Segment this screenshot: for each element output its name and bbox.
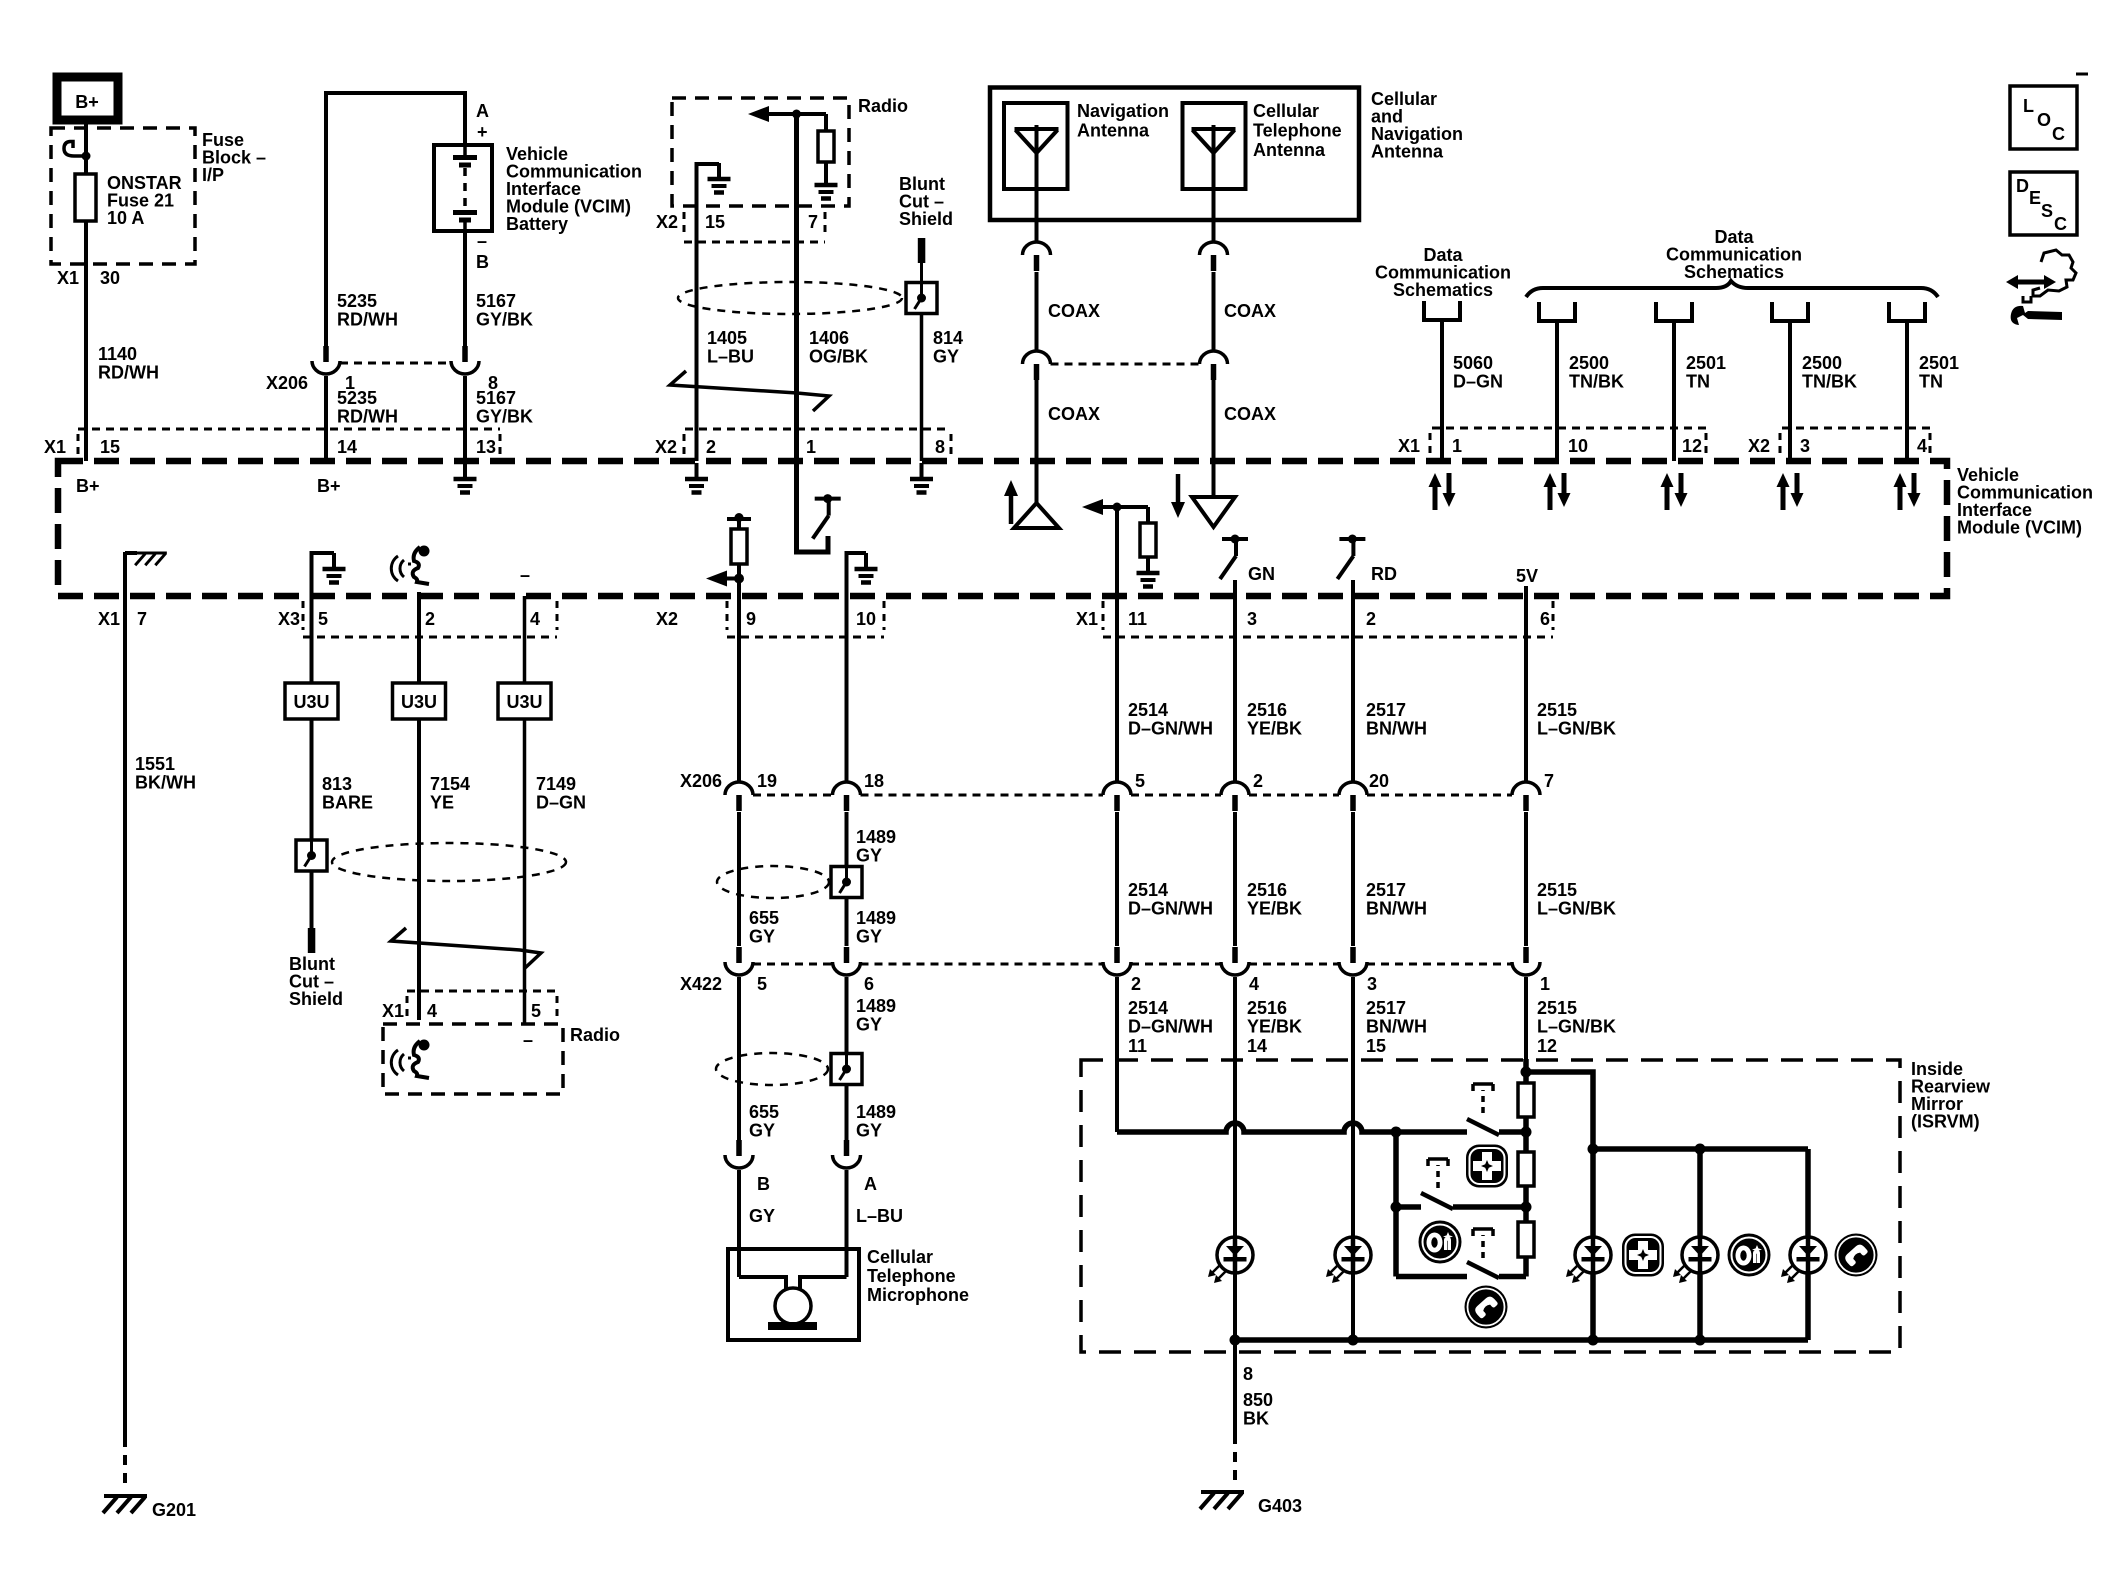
icon phone switch network [1465,1286,1508,1329]
wire 1489 GY segment 1 [845,596,849,782]
icon OnStar switch network [1419,1221,1462,1264]
svg-text:B+: B+ [76,476,100,496]
svg-text:X2: X2 [656,212,678,232]
svg-text:C: C [2052,124,2065,144]
svg-text:8: 8 [1243,1364,1253,1384]
ISRVM ground bus [1235,1337,1808,1343]
shield ellipse 655 segment 2 [717,866,829,898]
ISRVM resistor R1 [1518,1083,1534,1117]
svg-text:655: 655 [749,1102,779,1122]
svg-text:COAX: COAX [1224,404,1276,424]
junction dot radio output [792,110,801,119]
junction dot resistor chain mid1 [1521,1127,1532,1138]
microphone internal structure [739,1277,786,1289]
svg-text:1406: 1406 [809,328,849,348]
blunt cut shield tick [918,238,926,263]
connector U3U wire 7149 [498,683,551,719]
svg-text:10 A: 10 A [107,208,144,228]
radio internal ground wire 1405 side [697,164,720,206]
wire 2516 YE/BK segment 1 [1233,580,1237,782]
svg-text:7: 7 [808,212,818,232]
svg-text:Antenna: Antenna [1077,121,1150,141]
inside rearview mirror dashed box ISRVM [1081,1060,1900,1352]
svg-text:X2: X2 [656,609,678,629]
in-line connector cell coax 1 [1200,242,1228,271]
ISRVM LED feed bus [1593,1146,1808,1152]
svg-text:X1: X1 [44,437,66,457]
voice mic symbol VCIM X3-2 [417,592,421,596]
svg-text:9: 9 [746,609,756,629]
svg-text:C: C [2054,214,2067,234]
in-line connector X206 pin 7 [1512,782,1540,811]
shield splice box 813 [296,840,327,871]
junction dot ground bus [1695,1335,1706,1346]
VCIM battery box [434,145,492,231]
svg-text:GY/BK: GY/BK [476,310,533,330]
svg-text:Radio: Radio [570,1025,620,1045]
connector dotted row X1 top left [78,428,500,431]
svg-text:1: 1 [806,437,816,457]
svg-text:7: 7 [1544,771,1554,791]
up arrow nav antenna input [1004,480,1018,524]
svg-text:COAX: COAX [1224,301,1276,321]
twisted pair marker radio mic wires [391,928,541,968]
junction dot fuse feed [82,152,91,161]
dashed tail wire 850 [1233,1434,1237,1486]
legend box LOC [2010,86,2077,149]
svg-text:RD/WH: RD/WH [98,363,159,383]
junction dot ground bus [1588,1335,1599,1346]
svg-text:Cellular: Cellular [1253,101,1319,121]
up-down arrows 2500 #1 [1544,473,1571,510]
svg-text:L–GN/BK: L–GN/BK [1537,1017,1616,1037]
in-line connector X422 pin 5 [725,947,753,975]
svg-text:655: 655 [749,908,779,928]
svg-text:2517: 2517 [1366,700,1406,720]
icon phone LED row [1835,1234,1878,1277]
wire 1489 GY segment 3 [845,977,849,1140]
junction dot LED rail [1588,1144,1599,1155]
wire B+ to fuse [84,120,88,155]
svg-text:Shield: Shield [289,989,343,1009]
junction dot 2515 top branch [1521,1067,1532,1078]
wire mic A [845,1170,849,1277]
svg-text:X3: X3 [278,609,300,629]
wire 813 drain to blunt cut [310,871,314,928]
icon emergency cross LED row [1622,1234,1664,1277]
svg-text:5: 5 [531,1001,541,1021]
ISRVM net row 3 horizontal [1396,1274,1467,1280]
junction dot left rail mid [1391,1202,1402,1213]
in-line connector X422 pin 6 [833,947,861,975]
wire 2500 TN/BK [1788,321,1792,461]
radio internal resistor [824,114,828,131]
svg-text:2515: 2515 [1537,700,1577,720]
svg-text:2516: 2516 [1247,880,1287,900]
wire 813 BARE lower [310,719,314,840]
svg-text:3: 3 [1247,609,1257,629]
svg-text:+: + [477,122,488,142]
wire 2514 segment 3 [1115,977,1119,1132]
shield ellipse X3 harness [332,843,566,881]
nav coax wire COAX 2 [1035,380,1039,461]
svg-text:D: D [2016,176,2029,196]
svg-text:B: B [476,252,489,272]
ground G201 [103,1496,147,1513]
voice mic symbol radio [391,1040,429,1079]
wire 814 shield drain upper [920,263,923,283]
nav coax wire COAX [1035,272,1039,351]
svg-text:20: 20 [1369,771,1389,791]
in-line connector X422 pin 2 [1103,947,1131,975]
svg-text:1405: 1405 [707,328,747,348]
svg-text:5: 5 [318,609,328,629]
legend box DESC [2010,172,2077,235]
wire 1406 inside radio [794,114,799,206]
horn switch inside VCIM [797,461,829,552]
ISRVM resistor R3 [1518,1222,1534,1257]
connector U3U wire 813 [285,683,338,719]
cellular telephone antenna inner box [1183,103,1246,189]
cellular telephone microphone box [728,1249,859,1340]
svg-text:–: – [520,565,530,585]
svg-text:TN: TN [1919,372,1943,392]
wire 5235 feed loop [326,93,465,360]
svg-text:TN: TN [1686,372,1710,392]
in-line connector X422 pin 4 [1221,947,1249,975]
svg-text:X1: X1 [1398,436,1420,456]
svg-text:Schematics: Schematics [1684,262,1784,282]
svg-text:YE: YE [430,793,454,813]
wire 2515 segment 3 [1524,977,1528,1083]
svg-text:BN/WH: BN/WH [1366,1017,1427,1037]
svg-text:11: 11 [1128,1036,1147,1056]
ISRVM switch 1 actuator [1481,1090,1485,1113]
ground VCIM X3-5 internal [312,553,335,596]
ground VCIM pin 13 [454,463,477,493]
dotted tie X422 row [753,963,832,966]
svg-text:2500: 2500 [1569,353,1609,373]
blunt cut tick 813 [308,928,316,953]
svg-text:G403: G403 [1258,1496,1302,1516]
svg-text:3: 3 [1800,436,1810,456]
svg-text:4: 4 [530,609,540,629]
ISRVM switch 3 blade [1467,1262,1499,1278]
svg-text:X206: X206 [680,771,722,791]
svg-text:11: 11 [1128,609,1147,629]
cell coax wire COAX 2 [1212,380,1216,461]
svg-text:12: 12 [1682,436,1702,456]
svg-text:TN/BK: TN/BK [1569,372,1624,392]
LED telltale 2517 [1351,1237,1356,1273]
wire 2515 into ISRVM [1523,1059,1529,1083]
wire 814 GY [920,314,924,462]
svg-text:X1: X1 [98,609,120,629]
svg-text:15: 15 [1366,1036,1386,1056]
up-down arrows X1-1 [1429,473,1456,510]
svg-text:5060: 5060 [1453,353,1493,373]
down arrow cell antenna output [1171,474,1185,518]
svg-text:YE/BK: YE/BK [1247,1017,1302,1037]
svg-text:GN: GN [1248,564,1275,584]
wire 1140 RD/WH [84,264,88,461]
svg-text:RD/WH: RD/WH [337,310,398,330]
svg-text:5167: 5167 [476,388,516,408]
svg-text:14: 14 [1247,1036,1267,1056]
shield ellipse 655 segment 3 [716,1053,828,1085]
svg-text:D–GN: D–GN [1453,372,1503,392]
LED RD telltale symbol [1337,535,1365,580]
wire 1551 branch chassis node [125,551,137,555]
svg-text:L–BU: L–BU [707,347,754,367]
svg-text:X2: X2 [1748,436,1770,456]
svg-text:OG/BK: OG/BK [809,347,868,367]
fuse ONSTAR Fuse 21 10 A [84,156,88,174]
LED GN telltale symbol [1220,535,1248,580]
svg-text:RD/WH: RD/WH [337,407,398,427]
wire 5060 D-GN [1440,320,1444,461]
svg-text:–: – [477,231,487,251]
VCIM internal arrow node X1-11 [1100,505,1148,509]
wire 7154 YE upper [417,596,421,683]
svg-text:X206: X206 [266,373,308,393]
dashed tail wire 1551 [123,1437,127,1491]
wire 2515 segment 2 [1524,812,1528,946]
svg-text:Telephone: Telephone [1253,121,1342,141]
svg-text:1: 1 [1452,436,1462,456]
ISRVM LED branch 2 wire [1697,1149,1703,1237]
svg-text:Cellular: Cellular [867,1247,933,1267]
tiny page mark [2076,73,2088,76]
svg-text:YE/BK: YE/BK [1247,719,1302,739]
svg-text:B+: B+ [75,92,99,112]
svg-text:1: 1 [1540,974,1550,994]
wire 2517 BN/WH segment 1 [1351,580,1355,782]
wire 2516 segment 3 [1233,977,1237,1237]
wire 2516 segment 2 [1233,812,1237,946]
ISRVM switch 3 actuator [1481,1235,1485,1258]
wire 1551 BK/WH [123,552,127,1437]
svg-text:2515: 2515 [1537,880,1577,900]
svg-text:14: 14 [337,437,357,457]
fuse block dashed box Fuse Block - I/P [51,128,195,264]
shield splice box radio [906,283,937,314]
junction dot ground bus [1348,1335,1359,1346]
svg-text:7154: 7154 [430,774,470,794]
up-down arrows 2501 #4 [1894,473,1921,510]
radio dashed box [672,98,849,206]
svg-text:COAX: COAX [1048,301,1100,321]
in-line connector X422 pin 3 [1339,947,1367,975]
svg-text:4: 4 [1917,436,1927,456]
svg-text:15: 15 [705,212,725,232]
LED telltale rail3 [1806,1237,1811,1273]
svg-text:GY: GY [856,1121,882,1141]
in-line connector X206 pin 2 [1221,782,1249,811]
ground G403 [1200,1492,1244,1509]
radio internal arrow line [766,112,826,116]
navigation antenna symbol [1015,125,1059,220]
ISRVM left rail [1393,1132,1399,1277]
svg-text:RD: RD [1371,564,1397,584]
svg-text:Microphone: Microphone [867,1285,969,1305]
ISRVM switch 2 actuator [1436,1165,1440,1188]
svg-text:7: 7 [137,609,147,629]
junction dot resistor chain mid2 [1521,1202,1532,1213]
svg-text:S: S [2041,201,2053,221]
ground radio resistor [815,169,838,199]
wire 5167 GY/BK lower [463,376,467,461]
svg-text:1489: 1489 [856,908,896,928]
wire VCIM pin X1-11 internal [1115,507,1119,596]
fuse clip hook [64,142,86,157]
dotted tie X206 bottom row [753,794,832,797]
svg-text:2: 2 [1131,974,1141,994]
svg-text:–: – [523,1030,533,1050]
ISRVM net 2514 horizontal with hops [1117,1123,1467,1132]
junction dot LED feed mid [1695,1144,1706,1155]
svg-text:2514: 2514 [1128,880,1168,900]
ISRVM switch 2 blade [1421,1193,1453,1209]
svg-text:2501: 2501 [1919,353,1959,373]
wire 2517 segment 3 [1351,977,1355,1237]
LED telltale rail1 [1591,1237,1596,1273]
ground VCIM pin X2-2 [685,463,708,493]
svg-text:2: 2 [1366,609,1376,629]
svg-text:GY: GY [933,347,959,367]
ground VCIM internal resistor [1137,557,1160,587]
svg-text:7149: 7149 [536,774,576,794]
junction dot left rail top [1391,1127,1402,1138]
svg-text:814: 814 [933,328,963,348]
up-down arrows 2500 #3 [1777,473,1804,510]
in-line connector X206 pin 1 [324,344,328,348]
wire 1489 GY segment 2 [845,812,849,946]
dotted tie connector X206 top [340,362,451,365]
wire 2501 TN [1672,321,1676,461]
svg-text:2514: 2514 [1128,700,1168,720]
up-down arrows 2501 #2 [1661,473,1688,510]
in-line connector X206 pin 19 [725,782,753,811]
cell coax upper wire [1212,220,1216,242]
svg-text:5: 5 [1135,771,1145,791]
svg-text:D–GN/WH: D–GN/WH [1128,899,1213,919]
svg-text:BN/WH: BN/WH [1366,899,1427,919]
wire 2515 L-GN/BK segment 1 [1524,586,1528,782]
svg-text:BK: BK [1243,1409,1269,1429]
in-line connector mic pin B [725,1140,753,1168]
svg-text:2500: 2500 [1802,353,1842,373]
svg-text:1489: 1489 [856,827,896,847]
svg-text:L–GN/BK: L–GN/BK [1537,899,1616,919]
svg-text:5: 5 [757,974,767,994]
wire 2514 D-GN/WH segment 1 [1115,596,1119,782]
cell coax wire COAX [1212,272,1216,351]
svg-text:X422: X422 [680,974,722,994]
VCIM module dashed border [58,461,1947,596]
wire 2514 segment 2 [1115,812,1119,946]
quick-jump icon arrows car wrench [2006,250,2076,325]
svg-text:Antenna: Antenna [1253,140,1326,160]
svg-text:Battery: Battery [506,214,568,234]
nav coax upper wire [1035,220,1039,242]
svg-text:Module (VCIM): Module (VCIM) [1957,518,2082,538]
svg-text:TN/BK: TN/BK [1802,372,1857,392]
svg-text:Shield: Shield [899,209,953,229]
in-line connector X206 pin 5 [1103,782,1131,811]
svg-text:O: O [2037,110,2051,130]
cell antenna ground plane symbol [1212,461,1216,525]
in-line connector X206 pin 20 [1339,782,1367,811]
svg-text:10: 10 [1568,436,1588,456]
svg-text:4: 4 [1249,974,1259,994]
wires LED rails to bus [1590,1273,1596,1340]
in-line connector mic pin A [833,1140,861,1168]
ISRVM resistor R2 [1518,1152,1534,1186]
in-line connector X206 pin 8 [451,346,479,374]
svg-text:Schematics: Schematics [1393,280,1493,300]
svg-text:19: 19 [757,771,777,791]
ground VCIM pin X2-8 [910,463,933,493]
ground VCIM X2-10 internal [847,553,867,596]
svg-text:2516: 2516 [1247,998,1287,1018]
battery cell plates [463,145,467,155]
VCIM internal resistor X1-11 [1146,507,1150,523]
svg-text:GY: GY [749,1121,775,1141]
svg-text:GY: GY [749,927,775,947]
off-page connector 2501 #4 [1889,302,1925,321]
svg-text:2501: 2501 [1686,353,1726,373]
VCIM internal resistor X2-9 [727,517,751,521]
cellular and navigation antenna box [990,88,1359,221]
svg-text:1489: 1489 [856,996,896,1016]
wire mic B [737,1170,741,1277]
svg-text:5V: 5V [1516,566,1538,586]
ISRVM switch 1 blade [1467,1119,1499,1135]
in-line connector nav coax 2 [1023,351,1051,380]
twisted pair marker radio wires [670,371,829,411]
svg-text:2517: 2517 [1366,880,1406,900]
in-line connector X422 pin 1 [1512,947,1540,975]
wire LED 2516 to bus [1233,1273,1237,1340]
cellular antenna symbol [1192,125,1236,220]
svg-text:GY/BK: GY/BK [476,407,533,427]
connector U3U wire 7154 [393,683,446,719]
VCIM internal arrow X2-9 [723,577,739,581]
svg-text:2517: 2517 [1366,998,1406,1018]
svg-text:1140: 1140 [98,344,137,364]
in-line connector nav coax 1 [1023,242,1051,271]
wire 7149 D-GN lower [523,719,527,1024]
svg-text:813: 813 [322,774,352,794]
connector dotted row X1 data pins [1432,427,1706,430]
svg-text:A: A [476,101,489,121]
svg-text:GY: GY [856,1015,882,1035]
svg-text:15: 15 [100,437,120,457]
svg-text:YE/BK: YE/BK [1247,899,1302,919]
svg-text:2514: 2514 [1128,998,1168,1018]
svg-text:X1: X1 [1076,609,1098,629]
wire LED 2517 to bus [1351,1273,1355,1340]
svg-text:L–BU: L–BU [856,1206,903,1226]
svg-text:B+: B+ [317,476,341,496]
svg-text:I/P: I/P [202,165,224,185]
wire 1405 L-BU [695,206,699,461]
svg-text:L: L [2023,96,2034,116]
svg-text:GY: GY [856,846,882,866]
svg-text:2: 2 [425,609,435,629]
svg-text:Antenna: Antenna [1371,142,1444,162]
